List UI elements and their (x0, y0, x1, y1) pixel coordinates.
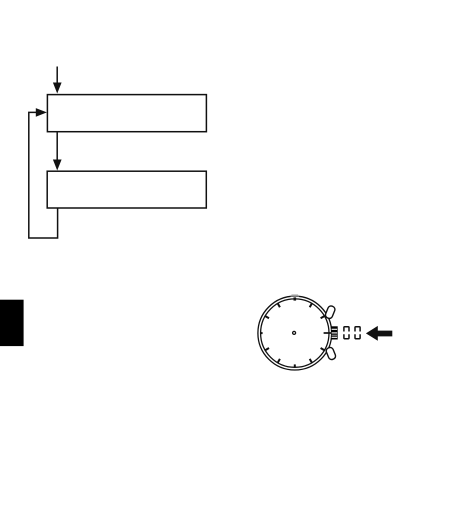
feedback loop wire (29, 112, 58, 238)
process box 1 (47, 95, 206, 132)
page tab marker (0, 300, 24, 346)
hour tick 11 (277, 303, 280, 307)
feedback arrowhead into box 1 (36, 108, 47, 117)
direction arrow (push crown) (366, 326, 392, 341)
crown position marker 1 (344, 327, 349, 339)
pusher B (4 o'clock) (325, 346, 336, 360)
12 o'clock case notch (290, 295, 299, 297)
flow arrow box 1 to box 2 (53, 132, 62, 170)
process box 2 (47, 171, 206, 208)
hour tick 10 (265, 316, 269, 319)
hour tick 4 (321, 348, 325, 351)
hour tick 1 (310, 303, 313, 307)
crown (ribbed) (331, 326, 338, 339)
hour tick 2 (321, 316, 325, 319)
hour tick 9 (260, 332, 262, 334)
pusher A (2 o'clock) (325, 305, 336, 319)
hour tick 6 (294, 364, 296, 367)
watch case inner rim (261, 299, 329, 367)
hour tick 8 (265, 348, 269, 351)
hour tick 7 (277, 359, 280, 363)
hour tick 12 (293, 297, 296, 300)
winding stem (324, 332, 332, 334)
hour tick 5 (310, 359, 313, 363)
crown position marker 2 (355, 327, 360, 339)
flow arrow into box 1 (53, 67, 62, 94)
center pivot (293, 331, 296, 334)
watch case outer rim (258, 296, 332, 370)
